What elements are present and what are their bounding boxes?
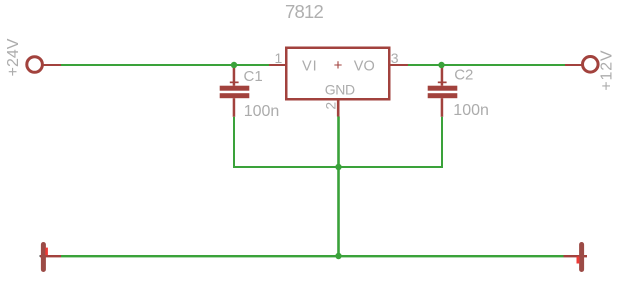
svg-text:100n: 100n	[244, 103, 280, 120]
svg-text:VI: VI	[302, 59, 318, 75]
svg-text:C2: C2	[454, 67, 473, 84]
svg-text:VO: VO	[354, 59, 375, 75]
svg-text:3: 3	[391, 50, 399, 66]
svg-text:7812: 7812	[285, 1, 323, 22]
svg-text:1: 1	[275, 50, 283, 66]
svg-text:GND: GND	[325, 82, 355, 98]
svg-text:+24V: +24V	[5, 38, 22, 76]
svg-text:+12V: +12V	[599, 50, 616, 91]
svg-text:+: +	[334, 57, 343, 74]
svg-text:2: 2	[322, 102, 338, 110]
svg-text:100n: 100n	[453, 102, 489, 119]
svg-text:C1: C1	[244, 68, 263, 85]
